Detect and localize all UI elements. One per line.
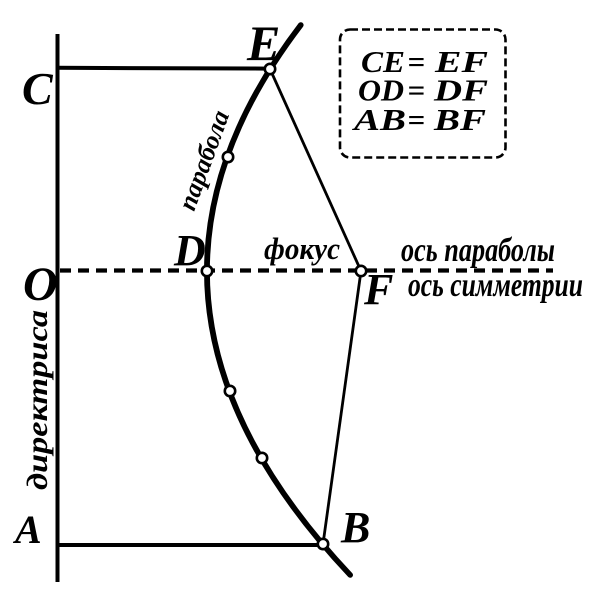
svg-text:фокус: фокус xyxy=(264,231,340,266)
wire E to F focal line xyxy=(270,69,361,271)
wire dashed axis line xyxy=(60,268,553,272)
wire bottom horizontal segment A to B xyxy=(56,543,324,547)
node E xyxy=(265,64,275,74)
svg-text:директриса: директриса xyxy=(21,310,54,490)
parabola curve xyxy=(207,25,350,575)
svg-text:C: C xyxy=(22,63,54,114)
wire directrix vertical line xyxy=(56,34,60,582)
svg-text:A: A xyxy=(12,507,42,552)
node on parabola upper xyxy=(223,152,233,162)
node F focus xyxy=(356,266,366,276)
svg-text:BF: BF xyxy=(433,102,487,137)
svg-text:O: O xyxy=(23,258,58,311)
wire top horizontal segment C to E xyxy=(56,66,271,71)
node B xyxy=(318,539,328,549)
svg-text:E: E xyxy=(246,15,280,71)
node D vertex xyxy=(202,266,212,276)
svg-text:ось симметрии: ось симметрии xyxy=(408,267,583,304)
svg-text:AB: AB xyxy=(351,102,406,137)
node on parabola lower 1 xyxy=(225,386,235,396)
wire B to F focal line xyxy=(323,271,361,544)
node on parabola lower 2 xyxy=(257,453,267,463)
legend dashed box xyxy=(340,30,506,158)
svg-text:ось параболы: ось параболы xyxy=(401,232,555,269)
svg-text:F: F xyxy=(363,265,393,314)
svg-text:D: D xyxy=(173,226,206,275)
svg-text:=: = xyxy=(408,102,426,137)
svg-text:B: B xyxy=(340,503,370,552)
